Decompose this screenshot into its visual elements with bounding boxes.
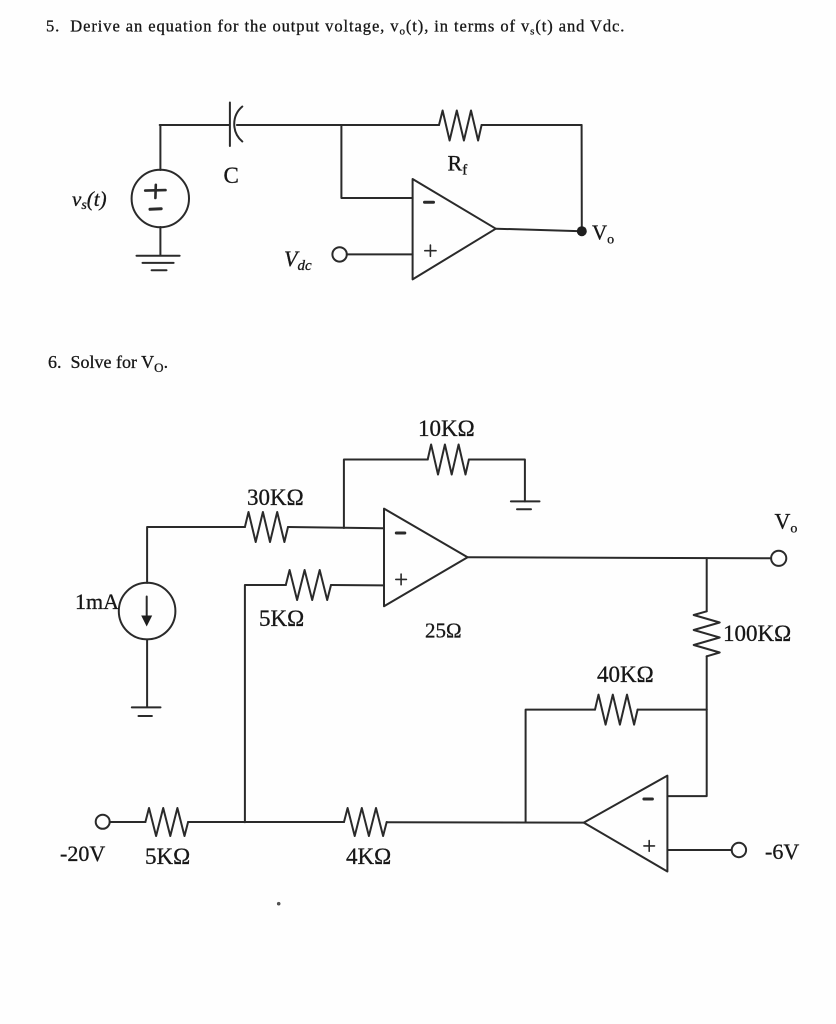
svg-text:Vdc: Vdc — [284, 246, 312, 274]
ground (10K) — [511, 501, 540, 509]
ground (current source) — [132, 707, 161, 716]
wire top rail to capacitor — [160, 124, 229, 126]
wire vs(t) source bottom to ground — [159, 227, 161, 256]
wire inverting input from top rail — [341, 125, 412, 198]
resistor 40K — [595, 695, 638, 725]
op-amp U3 — [584, 776, 668, 872]
svg-text:C: C — [224, 163, 239, 188]
capacitor C — [230, 103, 242, 147]
svg-text:5. Derive an equation for the: 5. Derive an equation for the output vol… — [46, 17, 625, 38]
wire 5K left corner down to bottom rail — [245, 585, 286, 822]
svg-text:vs(t): vs(t) — [72, 187, 107, 213]
svg-text:-6V: -6V — [765, 839, 799, 864]
svg-text:40KΩ: 40KΩ — [597, 662, 654, 687]
wire 4K to U3 output — [387, 821, 584, 823]
wire 40K right junction — [638, 709, 707, 711]
ground (vs source) — [137, 256, 180, 271]
wire capacitor to Rf — [237, 124, 439, 126]
current source 1mA — [119, 583, 176, 640]
wire 40K left corner down to bottom rail — [526, 710, 595, 823]
terminal -20V — [96, 815, 110, 829]
wire 5K to 4K bottom rail — [188, 821, 344, 823]
wire 5K to op-amp noninverting input — [331, 584, 384, 586]
node Vo dot — [577, 226, 587, 236]
op-amp U1 — [413, 179, 496, 279]
svg-text:30KΩ: 30KΩ — [247, 485, 304, 510]
svg-text:5KΩ: 5KΩ — [145, 844, 190, 869]
svg-text:Rf: Rf — [448, 151, 468, 179]
svg-text:Vo: Vo — [592, 221, 614, 248]
terminal Vo — [771, 551, 786, 566]
wire Vdc terminal to op-amp — [347, 253, 413, 255]
wire Rf to right corner — [482, 124, 582, 126]
svg-text:-20V: -20V — [60, 841, 105, 866]
svg-text:100KΩ: 100KΩ — [723, 621, 791, 646]
wire U3 noninverting input to -6V terminal — [667, 849, 731, 851]
svg-text:5KΩ: 5KΩ — [259, 606, 304, 631]
op-amp U2 — [384, 509, 468, 607]
svg-text:4KΩ: 4KΩ — [346, 844, 391, 869]
voltage source vs(t) — [132, 170, 189, 227]
wire 10K to ground corner — [469, 460, 525, 502]
wire right vertical down to output node — [581, 125, 583, 231]
wire op-amp output to node Vo — [496, 229, 582, 232]
resistor 30K — [245, 512, 288, 542]
resistor 5K (noninverting input) — [286, 570, 331, 600]
wire -20V terminal to 5K — [110, 821, 146, 823]
terminal Vdc — [332, 247, 346, 261]
resistor 4K — [344, 808, 387, 836]
wire vs(t) source top to top rail — [159, 125, 161, 170]
terminal -6V — [732, 843, 746, 857]
svg-text:6. Solve for VO.: 6. Solve for VO. — [48, 352, 168, 375]
svg-text:1mA: 1mA — [75, 589, 119, 614]
wire 30K to op-amp inverting input — [288, 527, 384, 528]
wire output node down to 100K — [706, 558, 708, 611]
resistor 100K — [694, 611, 720, 656]
svg-text:10KΩ: 10KΩ — [418, 416, 475, 441]
wire current source bottom to ground — [146, 639, 148, 707]
wire op-amp U2 output to Vo terminal — [468, 557, 771, 558]
resistor 5K (bottom) — [145, 808, 188, 836]
svg-text:25Ω: 25Ω — [425, 619, 462, 643]
wire 100K down to U3 inverting input — [667, 656, 706, 796]
speck — [277, 902, 280, 905]
wire current source top to 30K rail — [147, 527, 245, 583]
wire feedback vertical to 10K — [344, 460, 428, 529]
resistor 10K — [428, 445, 469, 475]
svg-text:Vo: Vo — [775, 509, 798, 537]
resistor Rf — [439, 111, 482, 141]
